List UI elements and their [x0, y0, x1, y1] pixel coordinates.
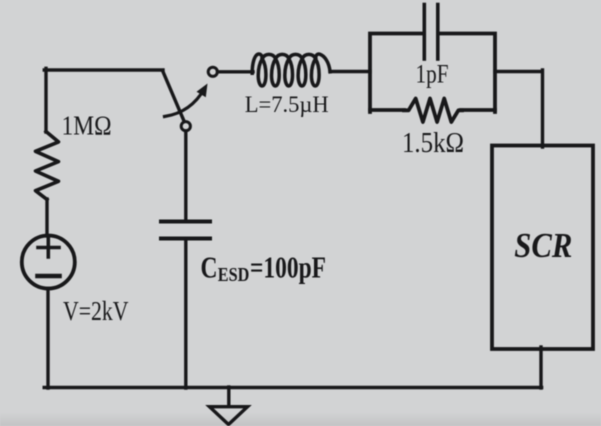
wire Cesd to bottom rail: [184, 241, 187, 389]
switch blade diagonal: [163, 71, 185, 122]
svg-text:V=2kV: V=2kV: [63, 296, 129, 326]
switch contact circle bottom: [181, 122, 190, 131]
wire resistor to source: [45, 199, 48, 236]
resistor R2 1.5kohm zigzag: [404, 99, 462, 123]
wire switch to Cesd: [184, 131, 187, 220]
svg-text:1MΩ: 1MΩ: [62, 111, 112, 141]
wire source to bottom rail: [46, 289, 49, 389]
wire RC box to SCR top: [495, 70, 543, 147]
capacitor Cesd top plate: [161, 220, 210, 224]
voltage source V1 circle: [22, 236, 75, 289]
inductor L1 coil: [252, 54, 330, 86]
RC box bottom right lead: [461, 108, 495, 112]
V1 plus sign: [38, 238, 59, 257]
RC network box top-right segment and right edge: [440, 34, 496, 113]
wire inductor to RC box: [330, 70, 370, 73]
RC box bottom left lead: [370, 108, 404, 112]
RC network box left edge and top-left segment: [370, 34, 424, 113]
wire switch to inductor: [218, 70, 254, 73]
capacitor Cesd bottom plate: [161, 237, 210, 241]
bottom rail wire: [44, 386, 541, 390]
resistor R1 1Mohm zigzag: [36, 132, 59, 200]
capacitor C2 1pF left plate: [422, 5, 426, 60]
wire SCR bottom to rail: [539, 347, 542, 388]
wire left vertical upper: [44, 68, 47, 132]
SCR box: [492, 146, 593, 350]
svg-text:1pF: 1pF: [416, 59, 449, 88]
V1 minus sign: [38, 274, 60, 279]
switch arrow head: [197, 84, 208, 98]
switch arc arrow curve: [165, 89, 205, 117]
svg-text:C: C: [201, 249, 218, 284]
ground stub wire: [227, 387, 230, 406]
svg-text:SCR: SCR: [514, 226, 572, 265]
capacitor C2 1pF right plate: [436, 5, 440, 60]
svg-text:=100pF: =100pF: [250, 249, 326, 284]
svg-text:1.5kΩ: 1.5kΩ: [402, 128, 464, 159]
svg-text:ESD: ESD: [218, 264, 250, 286]
ground triangle: [210, 407, 248, 425]
svg-text:L=7.5µH: L=7.5µH: [245, 92, 329, 117]
switch contact circle top: [208, 67, 217, 76]
wire top horizontal from left corner to switch: [44, 68, 163, 71]
